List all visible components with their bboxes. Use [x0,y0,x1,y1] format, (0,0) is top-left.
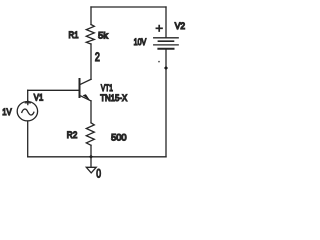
svg-text:1V: 1V [2,107,12,117]
wire V1 top lead [27,90,29,101]
svg-text:2: 2 [95,50,100,64]
node dot under V2 [164,66,168,70]
svg-text:V2: V2 [175,21,185,31]
wire V2 top lead [165,7,167,37]
wire base lead [28,89,80,91]
battery minus dot [158,61,160,63]
junction dot ground node [89,155,93,159]
wire ground stub [90,157,92,168]
V1 plus marker [25,101,30,105]
transistor VT1 [80,79,92,101]
source V1 [17,102,37,121]
ground [86,167,96,173]
svg-text:V1: V1 [34,92,44,102]
wire V1 bottom lead [27,121,29,157]
wire emitter lead [90,101,92,123]
svg-text:0: 0 [96,167,101,181]
resistor R2 [86,123,94,146]
svg-text:VT1: VT1 [101,83,113,93]
battery plus marker [156,26,162,31]
wire collector lead [90,44,92,79]
wire R1 top lead [90,7,92,25]
wire bottom rail [28,156,166,158]
wire V2 bottom lead [165,49,167,157]
battery V2 [154,38,179,49]
svg-text:500: 500 [111,132,127,142]
wire R2 bottom lead [90,145,92,157]
svg-text:R1: R1 [69,30,79,40]
wire top rail from R1 top to V2 top [91,6,166,8]
svg-text:TN15-X: TN15-X [100,93,127,103]
resistor R1 [86,25,94,45]
svg-text:5k: 5k [98,31,108,41]
svg-text:R2: R2 [67,130,78,140]
svg-text:10V: 10V [134,37,147,47]
